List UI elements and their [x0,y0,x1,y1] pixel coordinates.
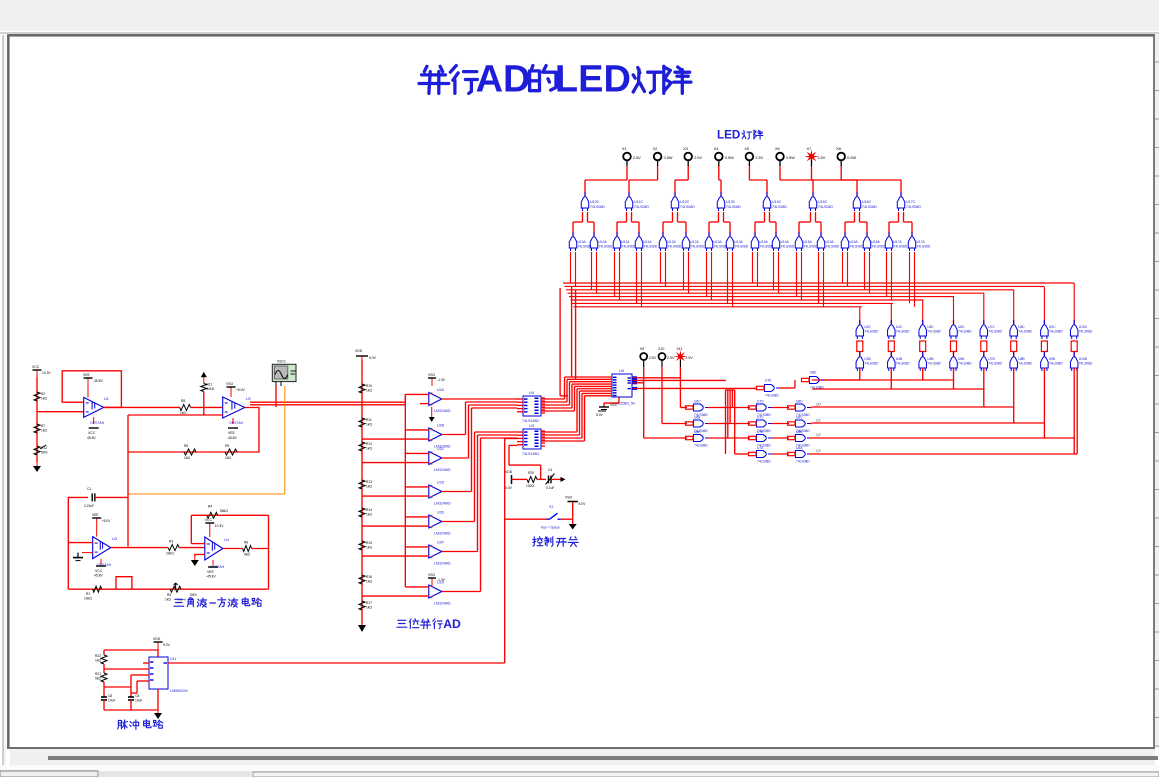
svg-text:U6C: U6C [958,325,965,329]
svg-text:U13A: U13A [714,240,723,244]
svg-text:74LS08D: 74LS08D [988,362,1002,366]
svg-text:S1: S1 [549,505,553,509]
svg-text:74LS08D: 74LS08D [1079,362,1093,366]
svg-text:U7C: U7C [988,325,995,329]
svg-text:U12A: U12A [668,240,677,244]
svg-text:74LS08D: 74LS08D [850,245,864,249]
svg-text:R10: R10 [366,384,372,388]
svg-text:R22: R22 [95,654,101,658]
svg-text:U5C: U5C [927,325,934,329]
svg-text:OP07AH: OP07AH [229,421,244,425]
svg-text:R12: R12 [366,442,372,446]
svg-text:LM324MD: LM324MD [434,562,451,566]
svg-text:VCC: VCC [95,569,103,573]
svg-text:74LS08D: 74LS08D [590,205,605,209]
svg-text:U8B: U8B [796,430,803,434]
svg-text:U7D: U7D [757,400,764,404]
svg-text:U2: U2 [246,397,251,401]
svg-text:VCC: VCC [88,431,96,435]
svg-text:0.5W: 0.5W [664,156,673,160]
svg-text:U11C: U11C [634,200,643,204]
svg-text:74LS08D: 74LS08D [818,205,833,209]
svg-text:Key = Space: Key = Space [541,526,560,530]
svg-text:R14: R14 [366,508,372,512]
svg-text:Q3': Q3' [816,449,822,453]
svg-text:5.0V: 5.0V [579,502,587,506]
svg-text:74LS08D: 74LS08D [826,245,840,249]
svg-text:R6: R6 [244,541,248,545]
svg-text:74LS08D: 74LS08D [644,245,658,249]
svg-text:R4: R4 [208,505,212,509]
svg-text:U3: U3 [112,537,117,541]
svg-text:U10C: U10C [590,200,600,204]
svg-text:U17C: U17C [906,200,916,204]
svg-text:U3B: U3B [864,357,871,361]
svg-text:74LS08D: 74LS08D [772,205,787,209]
svg-text:-1.3V: -1.3V [437,378,446,382]
svg-text:VEE: VEE [228,431,236,435]
svg-text:74LS08D: 74LS08D [927,330,941,334]
svg-text:74LS08D: 74LS08D [634,205,649,209]
svg-text:5kΩ: 5kΩ [95,677,101,681]
svg-text:U14C: U14C [772,200,782,204]
svg-text:U7A: U7A [757,446,764,450]
svg-text:74LS08D: 74LS08D [864,330,878,334]
svg-text:10uF: 10uF [108,699,116,703]
svg-text:U12A: U12A [691,240,700,244]
svg-text:0.5W: 0.5W [725,156,734,160]
svg-text:LM324MD: LM324MD [434,602,451,606]
svg-text:R21: R21 [95,672,101,676]
svg-text:Q0': Q0' [816,403,822,407]
svg-text:74LS08D: 74LS08D [927,362,941,366]
svg-text:Q2': Q2' [816,433,822,437]
svg-text:74LS08D: 74LS08D [988,330,1002,334]
svg-text:-45.8V: -45.8V [93,379,104,383]
svg-text:U7E: U7E [765,379,772,383]
svg-text:1kΩ: 1kΩ [184,456,190,460]
svg-text:LED: LED [717,128,740,141]
svg-text:VDD: VDD [355,349,363,353]
svg-text:X3: X3 [683,147,688,151]
svg-text:X4: X4 [714,147,719,151]
svg-text:LM324MD: LM324MD [434,502,451,506]
svg-text:10uF: 10uF [135,699,143,703]
svg-text:X2: X2 [653,147,658,151]
svg-text:VSS: VSS [610,403,618,407]
svg-text:X1: X1 [622,147,627,151]
svg-text:U6B: U6B [958,357,965,361]
svg-text:74LS08D: 74LS08D [599,245,613,249]
svg-text:U8B: U8B [1018,357,1025,361]
svg-text:74LS08D: 74LS08D [810,386,824,390]
svg-text:U6C: U6C [694,400,701,404]
svg-text:74LS08D: 74LS08D [726,205,741,209]
svg-text:U17A: U17A [917,240,926,244]
svg-text:R17: R17 [366,601,372,605]
svg-text:VDD: VDD [505,470,513,474]
svg-text:1kΩ: 1kΩ [225,456,231,460]
svg-text:X6: X6 [775,147,780,151]
svg-text:U5B: U5B [927,357,934,361]
svg-text:R9: R9 [225,444,229,448]
svg-text:74LS08D: 74LS08D [958,330,972,334]
svg-text:VEE: VEE [92,513,100,517]
svg-text:74LS08D: 74LS08D [765,394,779,398]
svg-text:U9B: U9B [1049,357,1056,361]
svg-text:XSC1: XSC1 [277,360,286,364]
svg-text:U8C: U8C [1018,325,1025,329]
svg-text:74LS08D: 74LS08D [917,245,931,249]
svg-text:U7B: U7B [757,430,764,434]
svg-text:AD: AD [443,617,461,631]
svg-text:U2D: U2D [437,481,445,485]
svg-text:10kΩ: 10kΩ [84,597,92,601]
svg-text:R20: R20 [528,471,534,475]
svg-text:74LS08D: 74LS08D [622,245,636,249]
svg-text:U5: U5 [619,368,625,373]
svg-text:LM555CM: LM555CM [170,689,188,693]
svg-text:74LS08D: 74LS08D [760,245,774,249]
svg-text:X8: X8 [836,147,841,151]
svg-text:0.1uF: 0.1uF [546,486,554,490]
svg-text:U4B: U4B [896,357,903,361]
svg-text:R11: R11 [366,418,372,422]
svg-text:VCC: VCC [205,518,213,522]
svg-text:C8: C8 [108,694,112,698]
svg-text:56kΩ: 56kΩ [220,509,228,513]
svg-text:U2A: U2A [437,388,445,392]
svg-text:U13C: U13C [726,200,736,204]
svg-text:74LS08D: 74LS08D [864,362,878,366]
svg-text:74LS08D: 74LS08D [1049,362,1063,366]
svg-text:1kΩ: 1kΩ [165,598,171,602]
svg-text:U6A: U6A [694,430,701,434]
svg-text:74LS08D: 74LS08D [1079,330,1093,334]
svg-text:1kΩ: 1kΩ [366,606,372,610]
svg-text:2.5V: 2.5V [667,356,675,360]
svg-text:74LS08D: 74LS08D [714,245,728,249]
svg-text:VEE: VEE [207,570,215,574]
svg-text:VSO: VSO [565,496,573,500]
svg-text:1kΩ: 1kΩ [366,423,372,427]
svg-text:-1.3V: -1.3V [437,578,446,582]
svg-text:R15: R15 [366,541,372,545]
svg-text:45.8V: 45.8V [87,436,96,440]
svg-text:5.0V: 5.0V [505,486,513,490]
svg-text:2.5V: 2.5V [633,156,641,160]
svg-text:U8C: U8C [796,416,803,420]
svg-text:X7: X7 [807,147,812,151]
svg-text:U2B: U2B [437,424,445,428]
svg-text:5.0V: 5.0V [596,413,604,417]
svg-text:U3C: U3C [864,325,871,329]
svg-text:X10: X10 [658,347,664,351]
svg-text:R8: R8 [181,399,185,403]
svg-text:10.3V: 10.3V [42,371,51,375]
svg-text:R5: R5 [167,593,171,597]
svg-text:R1: R1 [86,592,90,596]
svg-text:10kΩ: 10kΩ [207,387,215,391]
svg-text:OP07AH: OP07AH [90,421,105,425]
svg-text:U6B: U6B [694,416,701,420]
svg-text:10.3V: 10.3V [215,524,224,528]
svg-text:U1: U1 [104,397,109,401]
svg-text:U10A: U10A [578,240,587,244]
svg-text:U8E: U8E [810,371,817,375]
svg-text:1kΩ: 1kΩ [366,580,372,584]
svg-text:74LS08D: 74LS08D [757,460,771,464]
svg-text:U11: U11 [170,657,176,661]
svg-text:74LS08D: 74LS08D [872,245,886,249]
svg-text:U16C: U16C [862,200,872,204]
svg-text:X5: X5 [744,147,749,151]
svg-text:5.0V: 5.0V [163,643,171,647]
svg-text:U11A: U11A [644,240,653,244]
svg-text:U4: U4 [224,538,229,542]
svg-text:74LS08D: 74LS08D [958,362,972,366]
svg-text:74LS08D: 74LS08D [691,245,705,249]
svg-text:R13: R13 [366,480,372,484]
svg-text:R2: R2 [41,392,45,396]
svg-text:U4C: U4C [896,325,903,329]
svg-text:74LS08D: 74LS08D [804,245,818,249]
svg-text:74LS08D: 74LS08D [1018,330,1032,334]
svg-text:74LS08D: 74LS08D [781,245,795,249]
svg-text:U14A: U14A [781,240,790,244]
svg-text:50%: 50% [190,593,197,597]
svg-text:2.5V: 2.5V [694,156,702,160]
svg-text:VDD: VDD [153,637,161,641]
svg-text:U11A: U11A [622,240,631,244]
svg-text:1kΩ: 1kΩ [41,397,47,401]
svg-text:74LS08D: 74LS08D [694,444,708,448]
svg-text:5.0V: 5.0V [369,356,377,360]
svg-text:AD: AD [476,58,531,100]
svg-text:74LS148D: 74LS148D [522,452,539,456]
svg-text:U13A: U13A [735,240,744,244]
svg-text:U10C: U10C [1079,325,1088,329]
svg-text:U8A: U8A [796,446,803,450]
svg-text:U15C: U15C [818,200,828,204]
svg-text:U7C: U7C [757,416,764,420]
svg-text:74LS08D: 74LS08D [796,460,810,464]
svg-text:U2C: U2C [437,447,445,451]
svg-text:74LS08D: 74LS08D [906,205,921,209]
svg-text:U3: U3 [529,423,535,428]
svg-text:1kΩ: 1kΩ [41,429,47,433]
svg-text:C8: C8 [135,694,139,698]
svg-text:R3: R3 [169,540,173,544]
svg-text:20kΩ: 20kΩ [166,552,174,556]
svg-text:1kΩ: 1kΩ [366,447,372,451]
svg-text:C1: C1 [87,487,91,491]
svg-text:X11: X11 [676,347,682,351]
svg-text:74LS08D: 74LS08D [1018,362,1032,366]
svg-text:LM324MD: LM324MD [434,409,451,413]
svg-text:2.5V: 2.5V [685,356,693,360]
svg-text:U4: U4 [529,390,535,395]
svg-text:VEE: VEE [83,373,91,377]
svg-text:2.5V: 2.5V [755,156,763,160]
svg-text:U2E: U2E [437,511,445,515]
svg-text:-45.8V: -45.8V [227,436,238,440]
svg-text:74LS08D: 74LS08D [896,330,910,334]
svg-text:R7: R7 [41,424,45,428]
svg-text:U15A: U15A [826,240,835,244]
svg-text:R11: R11 [207,383,213,387]
svg-text:1kΩ: 1kΩ [366,513,372,517]
svg-text:1kΩ: 1kΩ [366,389,372,393]
svg-text:VSO: VSO [226,382,234,386]
svg-text:74LS08D: 74LS08D [668,245,682,249]
svg-text:74LS08D: 74LS08D [680,205,695,209]
svg-text:VSO: VSO [428,573,436,577]
svg-text:U12C: U12C [680,200,690,204]
svg-text:X9: X9 [640,347,644,351]
svg-text:LM324MD: LM324MD [434,468,451,472]
svg-text:U16A: U16A [872,240,881,244]
svg-text:C4: C4 [548,468,552,472]
svg-text:2.5V: 2.5V [818,156,826,160]
svg-text:VCC: VCC [32,365,40,369]
svg-text:74LS08D: 74LS08D [894,245,908,249]
svg-text:U16A: U16A [850,240,859,244]
svg-text:74LS08D: 74LS08D [735,245,749,249]
svg-text:9kΩ: 9kΩ [244,553,250,557]
svg-text:LED: LED [555,58,631,100]
svg-text:U14A: U14A [760,240,769,244]
svg-text:U9C: U9C [1049,325,1056,329]
svg-text:1kΩ: 1kΩ [366,546,372,550]
svg-text:U2F: U2F [437,541,445,545]
svg-text:+5.0V: +5.0V [102,519,112,523]
svg-text:Q1': Q1' [816,419,822,423]
svg-text:U7B: U7B [988,357,995,361]
svg-text:U10A: U10A [599,240,608,244]
svg-text:R16: R16 [366,575,372,579]
svg-text:LM324MD: LM324MD [434,532,451,536]
svg-text:0.5W: 0.5W [786,156,795,160]
svg-text:74LS08D: 74LS08D [896,362,910,366]
svg-text:74LS08D: 74LS08D [578,245,592,249]
svg-text:100Ω: 100Ω [526,484,535,488]
svg-text:1kΩ: 1kΩ [366,485,372,489]
svg-text:U10B: U10B [1079,357,1088,361]
svg-text:-45.8V: -45.8V [206,575,217,579]
svg-text:U15A: U15A [804,240,813,244]
svg-text:1kΩ: 1kΩ [95,659,101,663]
svg-text:0.22uF: 0.22uF [84,504,94,508]
svg-text:+5.0V: +5.0V [236,388,246,392]
svg-text:VSO: VSO [428,373,436,377]
svg-text:45.8V: 45.8V [94,574,103,578]
svg-text:0.5W: 0.5W [847,156,856,160]
svg-text:R6: R6 [184,444,188,448]
svg-text:50%: 50% [41,451,48,455]
svg-text:U17A: U17A [894,240,903,244]
svg-text:2.5V: 2.5V [649,356,657,360]
svg-text:U8D: U8D [796,400,803,404]
svg-text:74LS08D: 74LS08D [862,205,877,209]
svg-text:74LS08D: 74LS08D [1049,330,1063,334]
